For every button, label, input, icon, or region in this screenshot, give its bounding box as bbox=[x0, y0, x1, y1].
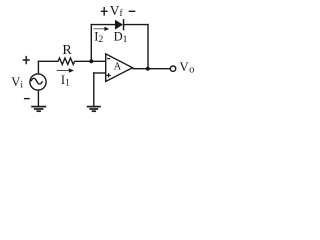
svg-text:R: R bbox=[62, 43, 72, 58]
svg-text:A: A bbox=[114, 61, 122, 72]
